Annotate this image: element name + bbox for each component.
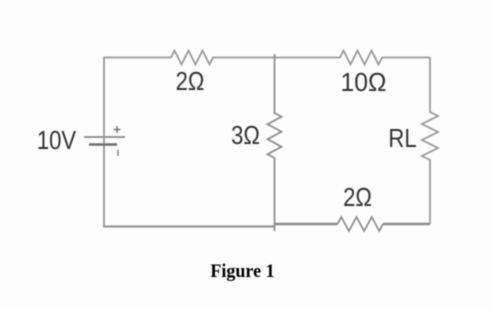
svg-text:10V: 10V <box>37 126 76 155</box>
svg-text:2Ω: 2Ω <box>176 67 205 96</box>
svg-text:3Ω: 3Ω <box>231 121 260 150</box>
svg-text:2Ω: 2Ω <box>343 183 372 212</box>
svg-text:10Ω: 10Ω <box>341 68 387 97</box>
svg-text:Figure 1: Figure 1 <box>210 261 274 283</box>
svg-text:RL: RL <box>388 124 416 153</box>
